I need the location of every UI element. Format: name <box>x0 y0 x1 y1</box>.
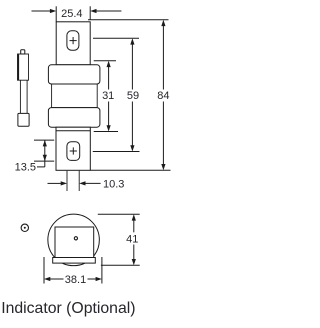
svg-text:38.1: 38.1 <box>65 274 86 286</box>
dimension 84 extension lines <box>88 20 171 171</box>
plus mark bottom <box>70 147 77 154</box>
side view bottom block <box>18 113 29 126</box>
dimension 59 extension lines <box>93 38 140 151</box>
svg-text:31: 31 <box>102 90 114 102</box>
dimension 59 <box>127 38 139 151</box>
top bolt slot <box>67 31 79 50</box>
bottom bolt slot <box>67 142 80 161</box>
dimension 13.5 <box>15 140 55 173</box>
dimension 31 <box>102 61 114 132</box>
svg-text:10.3: 10.3 <box>103 179 124 191</box>
svg-text:41: 41 <box>126 233 138 245</box>
bottom end cap <box>48 108 100 128</box>
dimension 25.4 <box>32 6 122 21</box>
bottom tab <box>67 171 79 191</box>
plus mark top <box>70 37 77 44</box>
dimension 84 <box>157 20 169 171</box>
svg-text:Indicator (Optional): Indicator (Optional) <box>1 300 135 317</box>
side view top blade <box>18 54 29 80</box>
side view knob <box>21 50 25 54</box>
svg-text:84: 84 <box>157 90 169 102</box>
bottom terminal blade <box>56 127 90 170</box>
dimension 38.1 <box>44 257 102 286</box>
svg-text:25.4: 25.4 <box>61 8 82 20</box>
top terminal blade <box>56 22 90 65</box>
top view outline circle <box>48 214 100 266</box>
barrel body <box>52 84 98 108</box>
svg-text:59: 59 <box>127 90 139 102</box>
svg-text:13.5: 13.5 <box>15 162 36 174</box>
caption text <box>1 300 135 317</box>
dimension 31 extension lines <box>94 61 118 132</box>
top view square body <box>55 227 94 258</box>
top view indicator hole <box>74 237 77 240</box>
side view rod <box>20 80 27 113</box>
dimension 10.3 <box>48 179 125 191</box>
top end cap <box>48 65 100 84</box>
indicator symbol <box>21 224 28 231</box>
top view cap strip <box>53 258 96 264</box>
dimension 41 <box>98 214 140 265</box>
